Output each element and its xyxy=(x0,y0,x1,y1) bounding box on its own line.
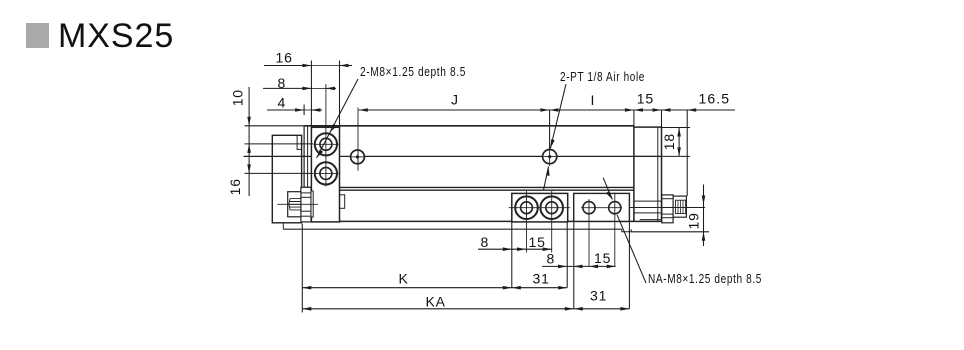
body mid line xyxy=(244,155,662,157)
bolt A inner xyxy=(521,202,533,214)
left adjuster washer xyxy=(311,191,313,217)
left bolt block xyxy=(311,127,339,222)
dim 16 top line xyxy=(264,65,311,67)
right plate mid line xyxy=(634,155,662,157)
bolt B vertical crosshair xyxy=(551,191,553,253)
dim 19 line xyxy=(703,185,705,247)
arrow leader NA-M8 xyxy=(606,191,613,199)
bolt U2 inner xyxy=(320,167,332,179)
left axis centerline xyxy=(277,203,318,205)
mount hole box xyxy=(574,193,630,221)
right knob serration xyxy=(676,200,687,213)
bolt A outer xyxy=(515,196,538,219)
ext 573.5 below xyxy=(573,222,575,309)
bolt U2 outer xyxy=(315,162,337,184)
bolt B outer xyxy=(540,196,563,219)
base plate left step xyxy=(282,223,284,229)
arrows dim 16.5 xyxy=(662,108,671,112)
leader 2-PT lower xyxy=(544,167,549,191)
left knob serration xyxy=(289,199,301,210)
dim 4 line xyxy=(267,109,304,111)
ext 567.2 below xyxy=(566,222,568,288)
svg-text:19: 19 xyxy=(686,212,702,229)
arrow leader 2-M8 mid xyxy=(330,124,336,132)
arrows row C 31 xyxy=(512,286,521,290)
stopper flange line xyxy=(640,219,662,221)
dim 16 top extension right xyxy=(339,61,341,128)
leader 2-PT upper xyxy=(550,84,566,148)
left block clamp tab xyxy=(340,195,345,209)
row D dim line (KA + 31) xyxy=(302,308,629,310)
ext 661.5 above body xyxy=(661,110,663,127)
body lower double line lower xyxy=(304,189,634,191)
arrows dim 18 xyxy=(677,128,681,137)
bolt U1 outer xyxy=(315,133,337,155)
svg-text:31: 31 xyxy=(590,287,607,303)
svg-text:16: 16 xyxy=(276,49,293,65)
leader 2-M8 xyxy=(317,79,358,158)
dim 16.5 line xyxy=(662,109,736,111)
arrows dim 16 left xyxy=(247,164,251,173)
title gray square xyxy=(26,23,49,48)
bolts vertical centerline xyxy=(325,84,327,187)
svg-text:16.5: 16.5 xyxy=(699,91,731,107)
dim 18 extension bottom xyxy=(662,155,691,157)
base plate bottom xyxy=(283,228,622,230)
stopper axis centerline xyxy=(620,207,705,209)
leader NA-M8 upper xyxy=(603,178,612,200)
stopper rod top xyxy=(635,200,662,202)
bolts AB centerline xyxy=(509,207,570,209)
arrows dim 16 top xyxy=(302,64,311,68)
dim I line xyxy=(549,109,634,111)
svg-text:KA: KA xyxy=(426,294,446,310)
arrows dim 8 top xyxy=(302,87,311,91)
svg-text:NA-M8×1.25 depth 8.5: NA-M8×1.25 depth 8.5 xyxy=(648,271,762,286)
hole D xyxy=(609,202,621,214)
svg-text:16: 16 xyxy=(227,178,243,195)
leader NA-M8 lower xyxy=(617,215,646,283)
svg-text:2-PT 1/8 Air hole: 2-PT 1/8 Air hole xyxy=(560,69,645,84)
bolt U1 crosshair horizontal xyxy=(314,143,339,145)
bolt U1 inner xyxy=(320,138,332,150)
dim 18 line xyxy=(678,128,680,157)
right nut xyxy=(662,195,673,223)
air hole center dot xyxy=(548,155,551,158)
side port vertical extension xyxy=(357,108,359,171)
side port crosshair vertical xyxy=(357,150,359,165)
ext 511.8 below xyxy=(511,222,513,288)
ext top edge left xyxy=(245,125,305,127)
base plate right foot xyxy=(622,229,631,232)
side port circle xyxy=(351,150,365,164)
center bolt block xyxy=(512,193,568,222)
ext 629.4 below xyxy=(628,222,630,309)
dim 18 extension top xyxy=(662,127,691,129)
right knob xyxy=(673,196,686,217)
row B dim line (8/15 bottom second) xyxy=(542,265,616,267)
arrow leader 2-M8 end xyxy=(317,149,323,158)
right end plate xyxy=(634,127,662,221)
dim J right extension (air hole) xyxy=(549,110,551,150)
row C dim line (K + 31) xyxy=(302,287,567,289)
air hole circle xyxy=(543,150,557,164)
svg-text:18: 18 xyxy=(661,133,677,150)
arrow leader 2-PT lower up xyxy=(546,167,550,176)
arrows row D 31 xyxy=(574,307,583,311)
body left edge xyxy=(303,126,305,222)
svg-text:I: I xyxy=(591,92,596,108)
svg-text:15: 15 xyxy=(594,250,611,266)
hole C xyxy=(583,202,595,214)
left dim column vertical xyxy=(248,87,250,196)
left adjuster nut xyxy=(301,187,311,222)
svg-text:MXS25: MXS25 xyxy=(58,17,174,55)
ext bolt U1 center xyxy=(245,143,314,145)
arrows dim 10 left xyxy=(247,117,251,126)
body top edge xyxy=(304,125,634,127)
stopper rod bottom xyxy=(635,212,662,214)
svg-text:8: 8 xyxy=(481,234,490,250)
ext K/KA left xyxy=(301,224,303,313)
body lower double line upper xyxy=(304,186,634,188)
svg-text:4: 4 xyxy=(278,95,287,111)
svg-text:15: 15 xyxy=(637,91,654,107)
right end plate inner edge xyxy=(657,127,659,221)
arrow leader 2-PT xyxy=(550,139,554,148)
ext 633.9 above body xyxy=(633,110,635,127)
dim 8 top line xyxy=(263,87,311,89)
svg-text:8: 8 xyxy=(278,75,287,91)
arrows row A xyxy=(503,247,512,251)
svg-text:15: 15 xyxy=(529,234,546,250)
svg-text:K: K xyxy=(399,271,409,287)
svg-text:8: 8 xyxy=(547,251,556,267)
dim 15/16.5 ext 687 xyxy=(686,110,688,196)
body left inner edge xyxy=(307,126,309,188)
left end bracket plate xyxy=(272,135,301,223)
dim 19 ext bottom xyxy=(631,231,709,233)
bolt U2 crosshair horizontal xyxy=(314,172,339,174)
svg-text:31: 31 xyxy=(533,271,550,287)
air hole crosshair horizontal xyxy=(541,156,559,158)
row A dim line (8/15 bottom) xyxy=(478,248,552,250)
svg-text:2-M8×1.25 depth 8.5: 2-M8×1.25 depth 8.5 xyxy=(360,64,466,79)
body bottom edge xyxy=(304,220,634,222)
arrows dim I xyxy=(549,108,558,112)
dim 15 top line xyxy=(634,109,662,111)
arrows row C K xyxy=(302,286,311,290)
dim J line xyxy=(359,109,550,111)
dim 16 top extension left xyxy=(310,61,312,128)
arrows row D KA xyxy=(302,307,311,311)
side port crosshair horizontal xyxy=(350,156,364,158)
arrows dim 15 top xyxy=(634,108,643,112)
arrows row B xyxy=(558,265,567,269)
bolt B inner xyxy=(546,202,558,214)
hole C vertical xyxy=(588,199,590,266)
arrows dim 4 xyxy=(295,108,304,112)
air hole crosshair vertical xyxy=(549,148,551,167)
arrows dim 19 xyxy=(702,196,706,205)
side port center dot xyxy=(356,155,359,158)
bracket top-right notch xyxy=(297,135,302,149)
svg-text:10: 10 xyxy=(230,89,246,106)
left knob xyxy=(288,192,301,217)
svg-text:J: J xyxy=(451,92,459,108)
dim 4 extension tick xyxy=(303,105,305,116)
hole D vertical xyxy=(614,193,616,267)
holes centerline xyxy=(581,207,622,209)
ext bolt U2 center xyxy=(245,172,314,174)
arrows dim J xyxy=(359,108,368,112)
bolt A vertical crosshair xyxy=(526,191,528,253)
